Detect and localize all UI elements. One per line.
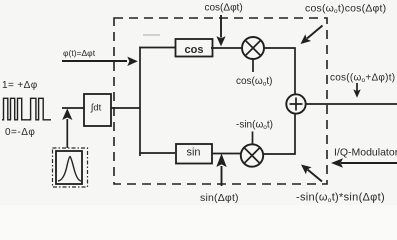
- annotation arrow: product pointer to corner: [301, 26, 323, 45]
- block COS (cosine lookup): [176, 39, 213, 57]
- wire: sin block to multiplier M2: [212, 153, 241, 155]
- annotation arrow: phase signal into fork: [62, 57, 138, 66]
- wire: local oscillator stub into M1: [252, 59, 254, 72]
- block integrator ∫dt: [84, 94, 111, 126]
- arrow: cos(Δφt) pointer down to cos output wire: [216, 15, 225, 46]
- wire: integrator output to fork: [111, 107, 140, 109]
- faint scan smudge: [143, 34, 160, 36]
- annotation arrow: product pointer to lower corner: [301, 165, 322, 182]
- data square wave: [2, 98, 51, 120]
- wire: bottom branch into sin block: [139, 152, 175, 154]
- wire: M1 output to summer (corner): [264, 48, 295, 95]
- wire: local oscillator stub into M2: [252, 132, 254, 145]
- Gaussian pulse-shaping filter block: [53, 148, 88, 187]
- wire: top branch into cos block: [139, 47, 176, 49]
- wire: cos block to multiplier M1: [211, 47, 242, 49]
- wire: M2 output up to summer (corner): [263, 114, 295, 154]
- multiplier M1 (cos path mixer): [242, 37, 264, 59]
- block SIN (sine lookup): [176, 144, 212, 164]
- wire: input fork vertical node: [139, 47, 141, 156]
- wire: integrator input: [62, 107, 84, 109]
- I/Q modulator dashed boundary box: [114, 18, 327, 184]
- arrow: sin(Δφt) pointer up into sin output wire: [216, 154, 226, 187]
- summer S1: [286, 94, 305, 113]
- wire: summer output: [306, 103, 397, 105]
- wire with up-arrow: filter output into integrator line: [62, 108, 72, 148]
- arrow: I/Q-Modulator pointer to dashed box: [331, 158, 397, 168]
- arrow: output pointer down to output wire: [353, 83, 360, 98]
- multiplier M2 (sin path mixer): [241, 144, 263, 166]
